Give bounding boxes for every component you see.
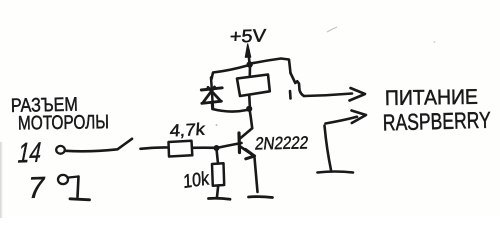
wire diode bottom to node [213,109,248,112]
faint speck right [434,41,436,43]
wire coil bottom to node [248,96,251,106]
relay coil K1 body [237,75,270,97]
transistor Q1 collector stroke [240,128,252,138]
common wire vertical [325,126,332,171]
svg-text:4,7k: 4,7k [169,120,206,141]
relay contact pole tick [289,91,292,99]
wire node down to resistor R2 [217,149,219,164]
emitter arrowhead [246,150,255,159]
svg-text:10k: 10k [183,168,210,193]
wire node to transistor base [217,143,242,148]
wire R2 to ground [217,186,218,198]
+5V arrowhead [245,44,250,57]
pin 7 stub vertical [78,177,79,198]
svg-text:2N2222: 2N2222 [254,132,309,153]
svg-text:RASPBERRY: RASPBERRY [382,107,491,136]
wire node to diode top [212,66,248,80]
svg-text:+5V: +5V [229,26,266,47]
diode D1 lead through [211,78,213,109]
transistor Q1 emitter stroke [240,146,254,156]
output wire arrow 1 shaft [304,94,352,97]
diode D1 lead bottom [211,103,214,110]
transistor Q1 base bar [237,133,241,153]
pin 7 hook horizontal [69,177,79,178]
resistor R2 10k body [212,163,224,186]
output wire arrow 2 shaft [326,117,358,124]
common wire bottom bar [318,172,354,173]
faint pencil smudge top right [327,27,337,32]
wire switch to resistor R1 [141,147,169,148]
+5V supply arrow line [247,50,250,63]
node under relay coil [246,106,252,112]
svg-text:ПИТАНИЕ: ПИТАНИЕ [385,86,478,110]
arrow 1 chevron head [350,88,366,101]
wire pin14 with switch blade [66,139,133,152]
svg-text:МОТОРОЛЫ: МОТОРОЛЫ [18,111,109,134]
junction node dot [214,145,220,151]
wire resistor to base node [193,146,217,149]
ground bar under R2 [209,198,231,199]
emitter wire down to ground [255,158,258,193]
wire coil top to +5V node [249,66,252,76]
diode D1 triangle [202,87,222,103]
diode D1 cathode bar [201,88,222,90]
collector wire up to coil node [250,109,253,128]
arrow 2 chevron head [352,111,367,124]
+5V node dot [247,61,253,67]
pin 7 bottom bar [70,199,90,200]
pin 7 terminal circle [58,175,68,184]
ground bar under emitter [249,195,273,199]
relay contact blade [291,73,305,96]
faint dot near node [216,124,218,126]
pin 14 terminal circle [56,146,65,154]
wire node to relay contact [251,59,291,74]
left edge scan shading [0,0,1,1]
resistor R1 4,7k body [169,141,193,157]
